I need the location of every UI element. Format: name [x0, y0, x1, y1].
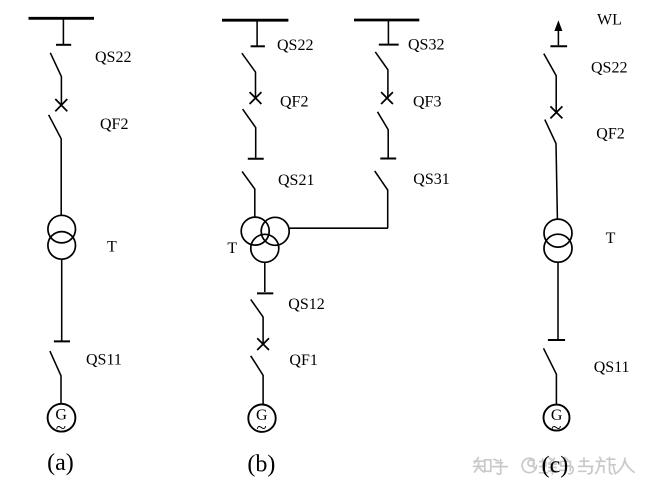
- disconnector QS22 (a) blade: [50, 53, 61, 105]
- svg-text:QS22: QS22: [277, 37, 313, 54]
- busbar (b) right: [354, 19, 419, 22]
- svg-text:QS11: QS11: [594, 359, 630, 376]
- svg-text:QS22: QS22: [95, 49, 131, 66]
- circuit breaker QF2 (b) blade: [243, 109, 256, 158]
- node fixed contact bar QS22 (c): [550, 45, 567, 47]
- disconnector QS11 (a) blade: [50, 351, 61, 404]
- transformer T (a) winding 1: [48, 215, 76, 243]
- transformer T (b) winding HV2: [261, 217, 289, 245]
- svg-text:(c): (c): [542, 452, 569, 478]
- breaker contact X QF2 (b): [250, 92, 262, 104]
- node fixed contact bar QS22 (a): [56, 44, 71, 46]
- circuit breaker QF2 (c) blade: [545, 120, 558, 219]
- svg-text:(b): (b): [247, 451, 275, 477]
- busbar (a): [29, 17, 95, 20]
- wire (b) transformer to QS12: [264, 262, 266, 292]
- svg-text:WL: WL: [597, 12, 622, 29]
- svg-text:~: ~: [256, 417, 266, 438]
- breaker contact X QF2 (a): [55, 99, 67, 111]
- wire (c) transformer to QS11: [557, 262, 559, 339]
- svg-text:T: T: [606, 230, 616, 247]
- disconnector QS11 (c) blade: [544, 348, 557, 404]
- disconnector QS22 (b) blade: [242, 53, 256, 98]
- breaker contact X QF1 (b): [257, 338, 269, 350]
- disconnector QS22 (c) blade: [544, 54, 556, 113]
- node fixed contact bar QS32 (b): [379, 44, 399, 46]
- line arrow WL head: [554, 20, 562, 31]
- svg-text:QF3: QF3: [413, 94, 441, 111]
- svg-text:QS31: QS31: [413, 171, 449, 188]
- transformer T (c) winding 2: [544, 234, 572, 262]
- disconnector QS31 (b) blade: [375, 171, 388, 228]
- disconnector QS12 (b) blade: [251, 299, 263, 344]
- svg-text:QS22: QS22: [591, 59, 627, 76]
- wire bus stub (a): [62, 18, 64, 44]
- disconnector QS32 (b) blade: [375, 52, 388, 98]
- svg-text:QS11: QS11: [86, 352, 122, 369]
- node fixed contact bar QS11 (c): [548, 339, 565, 341]
- svg-text:T: T: [227, 240, 237, 257]
- svg-text:QF1: QF1: [289, 352, 317, 369]
- transformer T (b) winding HV1: [241, 217, 269, 245]
- generator G (c) circle: [544, 405, 570, 431]
- svg-text:T: T: [107, 238, 117, 255]
- generator G (b) circle: [248, 405, 275, 432]
- svg-text:QS21: QS21: [278, 172, 314, 189]
- node fixed contact bar QS21 (b): [248, 158, 264, 160]
- node fixed contact bar QS12 (b): [257, 292, 273, 294]
- svg-text:QF2: QF2: [596, 126, 624, 143]
- svg-text:QS32: QS32: [408, 36, 444, 53]
- transformer T (b) winding LV: [251, 234, 279, 262]
- generator G (a) circle: [48, 404, 76, 432]
- transformer T (a) winding 2: [48, 232, 76, 260]
- watermark zhihu: [474, 457, 635, 474]
- svg-text:QS12: QS12: [288, 296, 324, 313]
- wire (b) horizontal link to transformer: [289, 227, 388, 229]
- breaker contact X QF2 (c): [550, 106, 562, 118]
- disconnector QS21 (b) blade: [242, 172, 255, 218]
- svg-text:QF2: QF2: [280, 94, 308, 111]
- wire bus stub (b) right: [387, 20, 389, 44]
- wire (a) transformer to QS11: [61, 259, 63, 340]
- node fixed contact bar QS22 (b): [251, 45, 265, 47]
- busbar (b) left: [222, 19, 288, 22]
- circuit breaker QF1 (b) blade: [251, 356, 263, 405]
- svg-text:(a): (a): [47, 450, 74, 476]
- circuit breaker QF2 (a) blade: [49, 115, 62, 215]
- breaker contact X QF3 (b): [381, 92, 393, 104]
- svg-text:~: ~: [551, 418, 561, 439]
- circuit breaker QF3 (b) blade: [378, 112, 389, 158]
- wire bus stub (b) left: [256, 20, 258, 45]
- svg-text:QF2: QF2: [100, 116, 128, 133]
- node fixed contact bar QS31 (b): [380, 158, 396, 160]
- svg-text:~: ~: [56, 418, 66, 439]
- node fixed contact bar QS11 (a): [54, 340, 70, 342]
- line arrow WL stem: [557, 30, 559, 45]
- transformer T (c) winding 1: [544, 219, 572, 247]
